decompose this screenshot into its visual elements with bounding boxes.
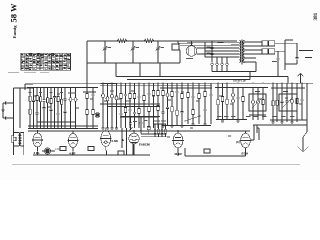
svg-text:GO 80 1 µF: GO 80 1 µF	[233, 80, 247, 83]
svg-text:6 AW: 6 AW	[112, 139, 119, 143]
svg-text:EABC80: EABC80	[139, 143, 150, 147]
svg-text:Eumig: Eumig	[12, 25, 17, 39]
svg-text:381: 381	[313, 12, 319, 20]
svg-text:ECH: ECH	[242, 152, 249, 156]
svg-text:4 EL: 4 EL	[34, 151, 41, 155]
svg-text:58 W: 58 W	[9, 3, 19, 22]
svg-text:(X): (X)	[236, 140, 240, 144]
